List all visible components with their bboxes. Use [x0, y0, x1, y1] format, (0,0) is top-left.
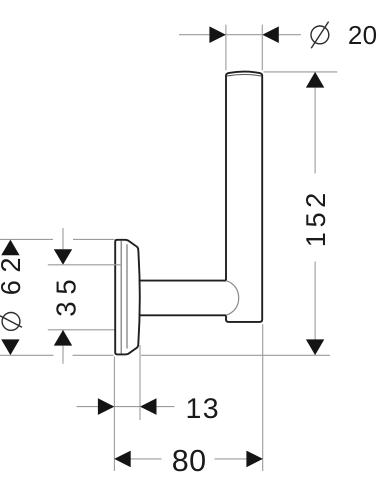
- wall flange inner tangent line 1: [120, 241, 122, 354]
- dim 152 top arrow: [306, 72, 324, 88]
- arm bottom line: [139, 314, 226, 316]
- dim phi62 top extension line: [0, 238, 53, 240]
- dim 13 dimension line segments: [77, 406, 99, 408]
- svg-text:35: 35: [50, 272, 81, 316]
- dim 35 top arrow: [54, 249, 72, 265]
- dim phi20 dimension line segments: [179, 34, 209, 36]
- dim 152 top extension line: [264, 71, 338, 73]
- rod top cap inner arc: [226, 75, 261, 77]
- dim 35 top extension line: [48, 264, 122, 266]
- dim phi20 right extension line: [261, 25, 263, 71]
- dim 152 bottom extension line (shared with phi62): [0, 354, 54, 356]
- dim 35 bottom arrow: [54, 330, 72, 346]
- arm-rod fillet arc: [226, 281, 239, 316]
- dim phi62 bottom arrow: [1, 339, 19, 355]
- dim phi20 right arrow: [262, 26, 279, 43]
- dim 80 dimension line segments: [130, 458, 161, 460]
- dim phi62 top arrow: [1, 240, 19, 256]
- dim 152 bottom arrow: [306, 339, 324, 355]
- svg-text:13: 13: [186, 393, 221, 425]
- arm top line: [139, 280, 226, 282]
- dim phi20 left extension line: [225, 25, 227, 71]
- wall flange inner tangent line 2: [126, 244, 128, 348]
- dim 80 right extension line: [262, 324, 264, 471]
- dim 13 right arrow: [140, 398, 157, 415]
- vertical rod outline: [226, 72, 262, 322]
- wall flange outline: [115, 240, 140, 355]
- dim 35 dimension line segments: [62, 228, 64, 249]
- dim phi62 diameter symbol (rotated): [0, 313, 22, 331]
- dim 80 left arrow: [114, 451, 131, 468]
- svg-text:62: 62: [0, 250, 26, 295]
- dim 152 dimension line segments: [314, 88, 316, 174]
- dim 35 bottom extension line: [48, 329, 115, 331]
- svg-text:80: 80: [172, 444, 207, 478]
- dim phi20 left arrow: [209, 26, 226, 43]
- dim 13 left extension line (wall face, shared with dim 80): [113, 357, 115, 472]
- svg-text:152: 152: [300, 188, 331, 247]
- dim 13 right extension line: [139, 345, 141, 420]
- dim phi20 diameter symbol: [311, 22, 329, 49]
- dim 80 right arrow: [246, 451, 263, 468]
- dim 13 left arrow: [98, 398, 115, 415]
- svg-text:20: 20: [348, 20, 378, 50]
